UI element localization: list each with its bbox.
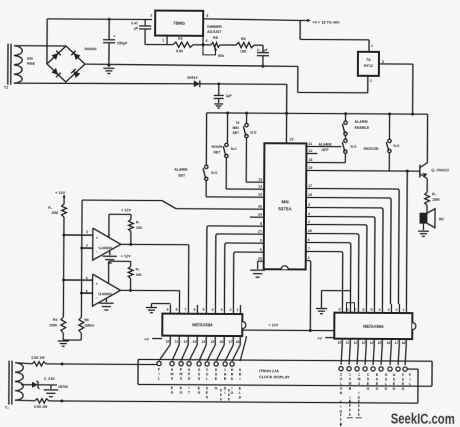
svg-text:T1: T1 bbox=[4, 86, 8, 90]
svg-text:I: I bbox=[340, 405, 341, 409]
svg-text:8Ω: 8Ω bbox=[439, 217, 444, 221]
svg-text:D: D bbox=[188, 377, 191, 381]
svg-text:26: 26 bbox=[308, 229, 312, 233]
svg-text:1: 1 bbox=[308, 256, 310, 260]
svg-text:R6: R6 bbox=[84, 318, 88, 322]
svg-text:ITRON 2JA: ITRON 2JA bbox=[259, 369, 279, 373]
svg-text:2: 2 bbox=[86, 244, 88, 248]
svg-text:19: 19 bbox=[308, 166, 312, 170]
svg-text:11: 11 bbox=[346, 341, 350, 345]
svg-text:SET: SET bbox=[232, 131, 240, 135]
svg-text:3: 3 bbox=[358, 382, 360, 386]
svg-text:+V = 18 TO 40V: +V = 18 TO 40V bbox=[312, 20, 340, 24]
svg-text:20: 20 bbox=[258, 205, 262, 209]
svg-text:15: 15 bbox=[377, 341, 381, 345]
svg-text:1: 1 bbox=[237, 308, 239, 312]
svg-text:78MG: 78MG bbox=[173, 21, 186, 26]
svg-text:0: 0 bbox=[349, 377, 351, 381]
svg-text:18: 18 bbox=[235, 340, 239, 344]
svg-text:B: B bbox=[349, 387, 352, 391]
svg-text:R: R bbox=[239, 373, 242, 377]
svg-text:16: 16 bbox=[219, 340, 223, 344]
svg-text:13: 13 bbox=[192, 340, 196, 344]
svg-text:12: 12 bbox=[353, 341, 357, 345]
svg-text:D: D bbox=[224, 386, 227, 390]
svg-text:11: 11 bbox=[175, 340, 179, 344]
svg-text:10: 10 bbox=[337, 341, 341, 345]
svg-text:2: 2 bbox=[150, 14, 152, 18]
svg-text:4: 4 bbox=[212, 308, 214, 312]
svg-text:1: 1 bbox=[349, 373, 351, 377]
svg-text:1N4002: 1N4002 bbox=[84, 47, 97, 51]
svg-text:T₂: T₂ bbox=[5, 406, 9, 410]
svg-text:I: I bbox=[159, 372, 160, 376]
svg-text:G: G bbox=[393, 387, 396, 391]
svg-text:A: A bbox=[171, 368, 174, 372]
svg-text:O: O bbox=[340, 386, 343, 390]
svg-text:D: D bbox=[215, 368, 218, 372]
svg-text:G: G bbox=[376, 387, 379, 391]
svg-text:15K: 15K bbox=[240, 50, 247, 54]
svg-text:ALARM: ALARM bbox=[174, 168, 187, 172]
svg-text:G: G bbox=[205, 395, 208, 399]
svg-text:17: 17 bbox=[394, 341, 398, 345]
svg-text:T8: T8 bbox=[236, 121, 240, 125]
svg-text:+ 12V: + 12V bbox=[121, 254, 132, 258]
svg-text:I: I bbox=[231, 386, 232, 390]
svg-text:N.O: N.O bbox=[250, 131, 256, 135]
svg-text:+ 12V: + 12V bbox=[121, 208, 132, 212]
svg-text:R2: R2 bbox=[178, 37, 183, 41]
svg-text:G: G bbox=[170, 391, 173, 395]
svg-text:7: 7 bbox=[308, 247, 310, 251]
svg-text:¼LM3900: ¼LM3900 bbox=[97, 292, 112, 296]
svg-text:6: 6 bbox=[194, 308, 196, 312]
svg-text:H: H bbox=[224, 373, 227, 377]
svg-text:14: 14 bbox=[201, 340, 205, 344]
svg-text:R₇: R₇ bbox=[48, 206, 52, 210]
svg-text:13: 13 bbox=[258, 178, 262, 182]
svg-text:R: R bbox=[224, 377, 227, 381]
svg-text:R4: R4 bbox=[53, 318, 57, 322]
svg-text:9: 9 bbox=[339, 308, 341, 312]
svg-text:10K: 10K bbox=[136, 226, 143, 230]
svg-text:10K: 10K bbox=[136, 273, 143, 277]
svg-text:1: 1 bbox=[162, 39, 164, 43]
svg-text:22: 22 bbox=[289, 137, 293, 141]
svg-text:3.9Ω 1W: 3.9Ω 1W bbox=[34, 405, 48, 409]
svg-text:100K: 100K bbox=[49, 323, 58, 327]
svg-text:ENABLE: ENABLE bbox=[355, 126, 370, 130]
svg-text:G: G bbox=[215, 386, 218, 390]
svg-text:8: 8 bbox=[260, 222, 262, 226]
svg-text:50k: 50k bbox=[218, 54, 224, 58]
svg-text:G: G bbox=[339, 409, 342, 413]
svg-text:G: G bbox=[402, 387, 405, 391]
svg-text:12: 12 bbox=[183, 340, 187, 344]
svg-text:D: D bbox=[393, 373, 396, 377]
svg-text:C: C bbox=[340, 373, 343, 377]
svg-text:10M: 10M bbox=[51, 211, 58, 215]
svg-text:G: G bbox=[367, 387, 370, 391]
svg-text:4: 4 bbox=[206, 39, 208, 43]
svg-text:A: A bbox=[198, 368, 201, 372]
svg-text:I: I bbox=[409, 378, 410, 382]
svg-text:µF: µF bbox=[134, 26, 138, 30]
svg-text:2: 2 bbox=[308, 220, 310, 224]
svg-text:NE/SA594: NE/SA594 bbox=[192, 322, 213, 327]
svg-text:N.O: N.O bbox=[393, 144, 399, 148]
svg-text:1: 1 bbox=[358, 373, 360, 377]
svg-text:N: N bbox=[340, 391, 343, 395]
svg-text:5: 5 bbox=[371, 308, 373, 312]
svg-text:5: 5 bbox=[260, 239, 262, 243]
svg-text:28: 28 bbox=[258, 257, 262, 261]
svg-text:HY12: HY12 bbox=[364, 64, 374, 68]
svg-text:G: G bbox=[357, 396, 360, 400]
svg-text:12: 12 bbox=[308, 149, 312, 153]
svg-text:13: 13 bbox=[361, 341, 365, 345]
svg-text:SET: SET bbox=[213, 150, 221, 154]
svg-text:SeekIC.com: SeekIC.com bbox=[391, 411, 455, 427]
svg-text:H: H bbox=[231, 368, 234, 372]
svg-text:R₃: R₃ bbox=[136, 267, 140, 271]
svg-text:M: M bbox=[357, 377, 360, 381]
svg-text:G: G bbox=[179, 391, 182, 395]
svg-text:R8: R8 bbox=[213, 36, 218, 40]
svg-text:3: 3 bbox=[206, 14, 208, 18]
svg-text:5: 5 bbox=[203, 308, 205, 312]
svg-text:18: 18 bbox=[401, 341, 405, 345]
svg-text:17: 17 bbox=[228, 340, 232, 344]
svg-text:1: 1 bbox=[403, 308, 405, 312]
svg-text:M: M bbox=[171, 372, 174, 376]
svg-text:N.O: N.O bbox=[350, 145, 356, 149]
svg-text:D: D bbox=[340, 400, 343, 404]
svg-text:14: 14 bbox=[369, 341, 373, 345]
svg-text:3.9Ω 1W: 3.9Ω 1W bbox=[31, 356, 45, 360]
svg-text:ALARM: ALARM bbox=[355, 120, 368, 124]
svg-text:+V: +V bbox=[317, 337, 322, 341]
svg-text:3: 3 bbox=[308, 203, 310, 207]
svg-text:14: 14 bbox=[258, 185, 262, 189]
svg-text:R6: R6 bbox=[241, 37, 246, 41]
svg-text:¼LM3900: ¼LM3900 bbox=[98, 246, 113, 250]
svg-text:MIN: MIN bbox=[233, 126, 240, 130]
svg-text:SNOOZE: SNOOZE bbox=[363, 147, 379, 151]
svg-text:ADJUST: ADJUST bbox=[207, 30, 222, 34]
svg-text:SET: SET bbox=[178, 174, 186, 178]
svg-text:6: 6 bbox=[260, 248, 262, 252]
svg-text:23: 23 bbox=[308, 193, 312, 197]
svg-text:2: 2 bbox=[396, 308, 398, 312]
svg-text:250µF: 250µF bbox=[117, 41, 128, 45]
svg-text:RMS: RMS bbox=[27, 62, 36, 66]
svg-text:N.O: N.O bbox=[211, 171, 217, 175]
svg-text:1: 1 bbox=[371, 44, 373, 48]
svg-text:O: O bbox=[340, 377, 343, 381]
svg-text:5: 5 bbox=[86, 290, 88, 294]
svg-text:+ 12V: + 12V bbox=[268, 323, 279, 327]
svg-text:1µF: 1µF bbox=[226, 94, 232, 98]
svg-text:3: 3 bbox=[388, 308, 390, 312]
svg-text:1800: 1800 bbox=[432, 198, 440, 202]
svg-text:C₇ 1µF: C₇ 1µF bbox=[257, 48, 268, 52]
svg-text:1: 1 bbox=[224, 368, 226, 372]
svg-text:4: 4 bbox=[86, 276, 88, 280]
svg-text:DIMMER: DIMMER bbox=[207, 25, 222, 29]
svg-text:I: I bbox=[358, 391, 359, 395]
svg-text:6: 6 bbox=[308, 238, 310, 242]
svg-text:9: 9 bbox=[167, 308, 169, 312]
svg-text:15: 15 bbox=[210, 340, 214, 344]
svg-text:3: 3 bbox=[221, 308, 223, 312]
svg-text:G: G bbox=[385, 373, 388, 377]
svg-text:5375A: 5375A bbox=[278, 206, 292, 211]
svg-text:A: A bbox=[188, 368, 191, 372]
svg-text:18: 18 bbox=[308, 158, 312, 162]
svg-text:2: 2 bbox=[230, 308, 232, 312]
svg-text:4: 4 bbox=[379, 308, 381, 312]
svg-text:10: 10 bbox=[165, 340, 169, 344]
svg-text:MN: MN bbox=[281, 199, 289, 204]
svg-text:R: R bbox=[231, 373, 234, 377]
svg-text:C: C bbox=[367, 373, 370, 377]
svg-text:1MEG: 1MEG bbox=[84, 324, 94, 328]
svg-text:N.C: N.C bbox=[231, 147, 237, 151]
svg-text:8: 8 bbox=[176, 308, 178, 312]
svg-text:+V: +V bbox=[144, 337, 149, 341]
svg-text:I: I bbox=[224, 391, 225, 395]
svg-text:6: 6 bbox=[363, 308, 365, 312]
svg-text:R₅: R₅ bbox=[432, 192, 436, 196]
svg-text:M: M bbox=[180, 372, 183, 376]
svg-text:1N914: 1N914 bbox=[187, 76, 198, 80]
svg-text:7: 7 bbox=[185, 308, 187, 312]
svg-text:C: C bbox=[206, 368, 209, 372]
svg-text:M: M bbox=[348, 382, 351, 386]
svg-text:3: 3 bbox=[86, 230, 88, 234]
svg-text:OFF: OFF bbox=[321, 148, 329, 152]
svg-text:D: D bbox=[231, 377, 234, 381]
svg-text:D: D bbox=[239, 396, 242, 400]
svg-text:5.6k: 5.6k bbox=[176, 49, 183, 53]
svg-text:7A: 7A bbox=[366, 58, 371, 62]
svg-text:CLOCK DISPLAY: CLOCK DISPLAY bbox=[259, 375, 290, 379]
svg-text:1N752: 1N752 bbox=[58, 385, 68, 389]
svg-text:HOUR: HOUR bbox=[211, 145, 222, 149]
svg-text:I: I bbox=[188, 386, 189, 390]
svg-text:Z, 3.6V: Z, 3.6V bbox=[44, 377, 56, 381]
svg-text:I: I bbox=[349, 396, 350, 400]
svg-text:0.47: 0.47 bbox=[131, 21, 138, 25]
svg-text:17: 17 bbox=[308, 184, 312, 188]
svg-text:G: G bbox=[197, 391, 200, 395]
svg-text:G: G bbox=[385, 387, 388, 391]
svg-text:Q₁ 2N2222: Q₁ 2N2222 bbox=[431, 168, 449, 172]
svg-text:G: G bbox=[230, 391, 233, 395]
svg-text:27: 27 bbox=[258, 230, 262, 234]
svg-text:11: 11 bbox=[308, 142, 312, 146]
svg-text:R₇: R₇ bbox=[136, 220, 140, 224]
svg-text:16: 16 bbox=[386, 341, 390, 345]
svg-text:15: 15 bbox=[258, 193, 262, 197]
svg-text:I: I bbox=[239, 377, 240, 381]
svg-text:600: 600 bbox=[27, 57, 33, 61]
svg-text:24: 24 bbox=[258, 213, 262, 217]
svg-text:2: 2 bbox=[370, 79, 372, 83]
svg-text:NE/SA594: NE/SA594 bbox=[363, 324, 384, 329]
svg-text:4: 4 bbox=[308, 212, 310, 216]
svg-text:O: O bbox=[206, 372, 209, 376]
